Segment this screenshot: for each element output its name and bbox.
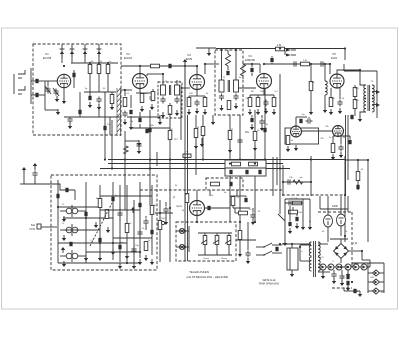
- junction dot 5: [162, 73, 164, 75]
- terminal symbol: [37, 224, 41, 229]
- wire stub 2: [107, 63, 109, 65]
- svg-text:V5: V5: [332, 52, 336, 56]
- capacitor C21: [250, 68, 253, 72]
- resistor R36d: [239, 211, 248, 215]
- wire: [146, 127, 148, 130]
- antenna terminal lower stub: [18, 93, 22, 95]
- wire: [169, 103, 171, 105]
- wire: [357, 181, 359, 190]
- ground below V6: [294, 145, 298, 151]
- arrow in box: [131, 207, 135, 213]
- resistor R7: [151, 92, 155, 101]
- resistor R24: [253, 132, 257, 141]
- resistor R26: [168, 131, 172, 140]
- svg-text:PAAR SPANNUNG: PAAR SPANNUNG: [259, 283, 280, 286]
- wire vertical in box 8: [119, 185, 121, 262]
- ground below V1: [62, 98, 66, 104]
- wire: [232, 195, 234, 198]
- wire: [228, 245, 230, 256]
- takeoff arrow 1: [286, 49, 291, 52]
- ground: [338, 108, 342, 114]
- wire: [188, 96, 190, 97]
- junction dot 24: [169, 158, 171, 160]
- ratio detector unit box: [225, 160, 266, 176]
- wire stub lower 0: [89, 74, 91, 93]
- wire: [271, 56, 273, 57]
- aux diamond diode D9: [373, 288, 380, 294]
- wire: [228, 233, 230, 236]
- capacitor C7: [96, 97, 101, 104]
- wire: [330, 238, 348, 240]
- wire: [145, 225, 147, 230]
- wire vertical x311: [310, 156, 312, 196]
- wire: [119, 207, 121, 210]
- wire: [131, 127, 147, 129]
- wire vertical in box 9: [133, 200, 135, 263]
- wire: [354, 109, 356, 116]
- resistor R14: [272, 98, 276, 107]
- capacitor C52: [288, 222, 291, 226]
- ground: [97, 104, 101, 110]
- resistor R15 on top bus: [276, 47, 285, 51]
- wire: [235, 212, 238, 214]
- dial lamps and controls dashed box: [176, 222, 236, 261]
- resistor R17: [309, 82, 313, 91]
- wire grid: [47, 81, 49, 86]
- tuning gang screen hatched strip: [117, 88, 121, 136]
- capacitor C34b: [348, 140, 351, 144]
- wire grid stub: [329, 64, 331, 74]
- dial lamp LA2: [179, 244, 184, 249]
- variable capacitor C3: [45, 87, 50, 94]
- junction dot 55: [357, 159, 359, 161]
- mains switch contact 2: [264, 251, 272, 255]
- capacitor in T2: [226, 71, 229, 75]
- wire T2 to V4: [238, 87, 256, 89]
- ground: [251, 219, 255, 225]
- junction dot 41: [159, 212, 161, 214]
- tube V2 ECH81: [133, 74, 148, 89]
- capacitor C31: [263, 128, 266, 132]
- ground alt: [137, 140, 141, 146]
- wire vertical in box 4: [112, 182, 114, 260]
- feedthrough stub 4: [98, 44, 100, 63]
- resistor R22: [201, 127, 205, 136]
- junction dot 10: [235, 49, 237, 51]
- wire: [146, 74, 148, 76]
- feedthrough cap bar 4: [97, 48, 102, 50]
- IF coil L3: [219, 80, 224, 92]
- wire: [341, 270, 343, 274]
- capacitor C35a: [286, 179, 293, 184]
- junction dot 7: [196, 65, 198, 67]
- junction dot 18: [359, 69, 361, 71]
- can electrolytic capacitor: [287, 248, 298, 270]
- arrow: [61, 247, 65, 253]
- wire cluster A left: [282, 165, 284, 196]
- FM tuner module K1 dashed box: [33, 44, 121, 135]
- capacitor in ratio box 2: [245, 170, 248, 174]
- wire stub 1: [98, 63, 100, 65]
- ground in box 4: [111, 249, 115, 255]
- ground: [195, 108, 199, 114]
- wire long bus 1: [108, 159, 345, 161]
- wire vertical x345: [344, 156, 346, 242]
- wire secondary 1: [318, 243, 328, 245]
- junction dot 25: [184, 158, 186, 160]
- wire aux ladder right: [383, 263, 385, 293]
- wire: [296, 214, 298, 216]
- wire from K1 to V2 grid: [121, 89, 132, 91]
- wire: [249, 95, 251, 97]
- svg-text:Klang: Klang: [221, 258, 227, 260]
- wire inner h7: [100, 195, 152, 197]
- rectifier tube V10: [337, 214, 346, 226]
- terminal bar: [20, 183, 28, 185]
- ground lower row 2: [260, 125, 264, 131]
- ground: [332, 278, 336, 284]
- wire: [79, 92, 81, 117]
- feedthrough cap bar 1: [60, 48, 65, 50]
- wire bridge out right: [349, 250, 363, 252]
- resistor R11: [227, 101, 231, 110]
- resistor R34b: [105, 210, 109, 219]
- wire inner h4: [86, 251, 140, 253]
- wire bridge out bottom: [340, 259, 342, 264]
- wire: [216, 233, 218, 236]
- capacitor C36e: [118, 245, 121, 249]
- wire cathode: [139, 89, 141, 93]
- wire vertical x185: [184, 64, 186, 261]
- capacitor C49: [353, 289, 356, 293]
- capacitor in ratio box: [229, 170, 232, 174]
- wire to switches: [236, 239, 256, 241]
- wire: [98, 104, 100, 117]
- wire to speaker -: [372, 104, 376, 106]
- capacitor C50: [287, 200, 294, 205]
- coil L5: [325, 81, 327, 95]
- wire rect 1 down: [327, 227, 329, 242]
- capacitor C16: [194, 100, 199, 107]
- secondary winding upper: [372, 85, 374, 99]
- circled diode D3: [336, 264, 342, 270]
- resistor R1: [88, 65, 92, 74]
- wire: [349, 136, 351, 139]
- resistor R20: [353, 100, 357, 109]
- tuning coil assembly L7: [60, 224, 86, 236]
- wire drop to chain: [351, 263, 353, 267]
- capacitor C36a: [111, 197, 114, 201]
- transformer core line 2: [170, 85, 172, 95]
- box around V6: [285, 128, 319, 144]
- variable cap arrow C4: [53, 88, 59, 96]
- svg-text:1m: 1m: [301, 114, 304, 116]
- svg-text:1,5k: 1,5k: [277, 44, 282, 47]
- tube V7: [333, 126, 344, 137]
- feedthrough cap arrow 2: [70, 51, 74, 57]
- aux diode arrow 7: [375, 272, 378, 275]
- capacitor C32: [148, 128, 151, 132]
- wire V6 top: [295, 117, 297, 126]
- wire aux rung 1: [368, 272, 384, 274]
- wire lamp 1: [176, 230, 189, 232]
- wire vertical in box 2: [85, 182, 87, 263]
- wire: [176, 80, 178, 85]
- junction dot 58: [310, 181, 312, 183]
- svg-text:B250: B250: [353, 263, 359, 265]
- capacitor C6: [88, 96, 91, 100]
- wire: [332, 136, 334, 143]
- wire vertical x187: [187, 115, 189, 261]
- wire top bus segment: [196, 47, 216, 49]
- wire: [251, 64, 253, 67]
- wire: [34, 177, 36, 184]
- wire diagonal mains: [278, 214, 285, 221]
- wire aux ladder left: [367, 263, 369, 293]
- capacitor C17: [219, 94, 224, 101]
- junction dot 32: [310, 158, 312, 160]
- ground: [150, 104, 154, 110]
- wire earth terminal: [23, 168, 25, 184]
- wire rect 2 up: [340, 209, 342, 214]
- wire arrow out 1: [291, 49, 296, 51]
- wire mains vertical 3: [309, 199, 311, 224]
- junction dot 13: [279, 47, 281, 49]
- wire: [345, 159, 358, 161]
- ground: [219, 105, 223, 111]
- wire vertical x112: [111, 120, 113, 169]
- junction dot 22: [124, 158, 126, 160]
- capacitor C10: [122, 111, 127, 118]
- wire vertical x230: [229, 115, 231, 222]
- ground in box 5: [125, 253, 129, 259]
- ground: [340, 280, 344, 286]
- wire osc: [124, 90, 126, 96]
- resistor R8: [151, 64, 160, 68]
- wire vertical x150: [149, 110, 151, 205]
- ground: [288, 228, 292, 234]
- svg-text:2M: 2M: [245, 98, 248, 100]
- wire cathode bus: [136, 92, 152, 94]
- IF transformer T1 dashed box: [158, 82, 182, 118]
- ground: [246, 258, 250, 264]
- junction dot 53: [361, 250, 363, 252]
- capacitor C30: [237, 138, 242, 145]
- svg-text:1M: 1M: [250, 91, 253, 93]
- wire: [204, 64, 206, 74]
- junction dot 39: [126, 262, 128, 264]
- ground: [161, 112, 165, 118]
- resistor R13: [256, 98, 260, 107]
- wire: [196, 66, 198, 74]
- wire vertical x277: [276, 157, 278, 185]
- wire V8 down: [196, 216, 198, 222]
- wire stub lower 2: [107, 74, 109, 93]
- junction dot 43: [184, 230, 186, 232]
- tuning coil assembly L6: [60, 205, 86, 217]
- wire: [251, 73, 253, 76]
- junction dot 4: [139, 65, 141, 67]
- junction dot 50: [299, 246, 301, 248]
- wire rect top bus: [320, 208, 348, 210]
- circled diode D1: [320, 264, 326, 270]
- wire vertical x125: [124, 131, 126, 210]
- capacitor C39c: [98, 238, 101, 242]
- wire V3 plate to T2: [205, 63, 219, 65]
- wire: [152, 89, 154, 91]
- wire top right: [344, 70, 377, 72]
- wire stub lower 1: [98, 74, 100, 93]
- wire: [354, 85, 356, 87]
- tube V1 ECC85: [57, 74, 70, 87]
- wire: [139, 112, 141, 117]
- capacitor C20: [263, 100, 268, 107]
- wire cathode bus: [189, 95, 205, 97]
- wire cluster A bus: [283, 181, 311, 183]
- circled diode D4: [345, 264, 351, 270]
- wire K1 left bottom: [45, 109, 58, 111]
- ground: [323, 107, 327, 113]
- wire switch 1: [256, 246, 264, 248]
- capacitor C26: [337, 100, 342, 107]
- wire to speaker +: [372, 91, 376, 93]
- capacitor C46: [245, 251, 250, 258]
- wire: [232, 206, 234, 208]
- resistor R28: [331, 144, 335, 153]
- feedthrough stub 2: [71, 44, 73, 63]
- svg-text:UKW: UKW: [29, 228, 35, 231]
- resistor R36b: [185, 194, 189, 203]
- ground: [175, 110, 179, 116]
- wire switch 2: [256, 254, 264, 256]
- tube V8 magic eye: [190, 201, 205, 216]
- wire inner h8: [100, 209, 140, 211]
- wire: [357, 160, 359, 171]
- capacitor above V6: [299, 119, 302, 123]
- capacitor C36b: [117, 211, 122, 218]
- junction dot 21: [104, 158, 106, 160]
- resistor R19: [353, 88, 357, 97]
- keyboard switch unit dashed box: [51, 175, 157, 270]
- ground: [140, 106, 144, 112]
- wire plate to transformer: [337, 70, 366, 85]
- ground in box 9: [132, 263, 136, 269]
- wire vertical x280: [279, 74, 281, 196]
- transformer core line: [227, 80, 229, 92]
- svg-text:1m: 1m: [184, 194, 187, 196]
- wire: [130, 116, 132, 125]
- transformer primary upper: [309, 242, 311, 256]
- junction dot 37: [99, 242, 101, 244]
- capacitor C39d: [143, 219, 148, 226]
- junction dot 46: [239, 221, 241, 223]
- ground in box 1: [94, 222, 98, 228]
- wire inner h9: [113, 237, 152, 239]
- wire transformer return: [360, 112, 366, 117]
- wire low bus: [344, 290, 360, 292]
- wire inner h2: [63, 217, 113, 219]
- wire: [111, 92, 113, 95]
- capacitor C36c: [138, 203, 141, 207]
- wire: [221, 50, 223, 80]
- capacitor C13: [160, 97, 165, 104]
- ground: [253, 145, 257, 151]
- electrolytic C48: [346, 275, 349, 279]
- junction dot 54: [344, 194, 346, 196]
- wire vertical x157: [156, 152, 158, 166]
- wire lower feed: [31, 94, 45, 96]
- ground under assembly 1: [62, 216, 66, 222]
- aux diode arrow 8: [375, 281, 378, 284]
- resistor R21: [194, 129, 198, 138]
- circled diode D5: [353, 264, 359, 270]
- capacitor C45: [275, 247, 278, 251]
- decoupling capacitor C15: [168, 64, 171, 68]
- primary winding lower: [364, 98, 366, 112]
- wire: [243, 63, 260, 65]
- variable cap arrow C3: [45, 86, 51, 94]
- wire above V6: [296, 116, 307, 118]
- wire V8 up: [196, 190, 198, 200]
- capacitor C18: [233, 94, 238, 101]
- capacitor C35: [356, 185, 359, 189]
- wire dashed mech bus 2: [282, 194, 345, 196]
- wire vertical x203: [202, 115, 204, 160]
- arrow up 2: [33, 163, 37, 169]
- wire: [204, 96, 206, 97]
- capacitor C20c: [259, 119, 264, 126]
- wire vertical x368: [367, 160, 369, 242]
- ground mains big: [283, 240, 287, 246]
- tube V4 EABC80: [257, 74, 272, 89]
- wire AGC vertical: [184, 60, 186, 85]
- svg-text:1m: 1m: [299, 177, 302, 179]
- wire antenna to box: [31, 80, 45, 82]
- wire: [138, 141, 140, 142]
- wire: [322, 270, 324, 274]
- antenna terminal upper stub: [18, 77, 22, 79]
- capacitor C24: [292, 61, 299, 66]
- wire: [340, 136, 342, 144]
- wire aux top bus: [352, 262, 384, 264]
- junction dot 3: [107, 62, 109, 64]
- capacitor C47: [331, 272, 336, 279]
- wire: [208, 48, 210, 50]
- resistor R36c: [231, 197, 235, 206]
- capacitor C33: [136, 142, 141, 149]
- wire rect 1 up: [327, 210, 329, 215]
- ground: [329, 109, 333, 115]
- ground: [123, 119, 127, 125]
- wire: [291, 270, 293, 272]
- wire inner h3: [58, 242, 127, 244]
- wire: [247, 222, 249, 250]
- wire: [245, 196, 247, 197]
- resistor R30: [356, 172, 360, 181]
- capacitor C39: [69, 242, 72, 246]
- capacitor above V6 b: [306, 118, 313, 123]
- capacitor C29: [65, 188, 68, 192]
- resistor in coupling box: [211, 182, 220, 186]
- wire: [119, 217, 121, 221]
- feedthrough stub 1: [61, 44, 63, 63]
- resistor in ratio box 2: [249, 162, 258, 166]
- capacitor C25: [319, 61, 326, 66]
- wire plate stub: [259, 64, 261, 73]
- junction dot 0: [63, 65, 65, 67]
- junction dot 23: [149, 158, 151, 160]
- junction dot 47: [254, 221, 256, 223]
